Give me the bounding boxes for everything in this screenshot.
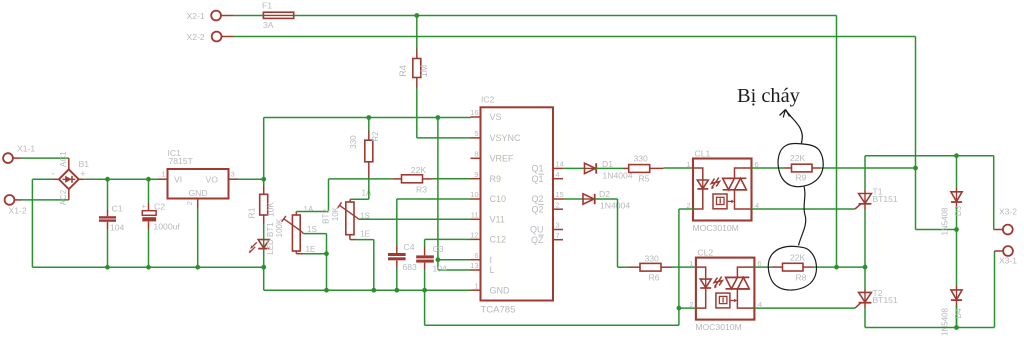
svg-text:1E: 1E: [360, 230, 370, 239]
svg-text:X2-1: X2-1: [187, 11, 205, 21]
junction CL2 pin2: [677, 306, 682, 311]
resistor R2 330: [349, 118, 380, 181]
wire R8 to line: [813, 266, 865, 268]
svg-text:Bị cháy: Bị cháy: [737, 85, 801, 107]
svg-text:330: 330: [634, 154, 649, 164]
junction C3 bottom bus: [422, 288, 427, 293]
diode D4 1N5408: [940, 230, 963, 337]
svg-text:7: 7: [556, 231, 560, 240]
svg-text:11: 11: [471, 211, 479, 220]
wire R3 to R9 pin9: [433, 178, 471, 180]
resistor R6 330: [628, 253, 672, 282]
svg-text:AC1: AC1: [59, 151, 68, 167]
junction R9 line: [913, 166, 918, 171]
diode D3 1N5408: [940, 156, 963, 236]
svg-text:+: +: [80, 169, 85, 179]
svg-text:D1: D1: [602, 159, 613, 169]
svg-text:8: 8: [474, 150, 478, 159]
wire IC1 GND down: [197, 209, 199, 268]
svg-text:AC2: AC2: [59, 189, 68, 205]
svg-text:C2: C2: [154, 201, 165, 211]
svg-text:CL2: CL2: [697, 247, 713, 257]
thyristor T1 BT151: [855, 187, 898, 210]
potentiometer BT2 10K: [321, 189, 372, 239]
svg-text:1N4004: 1N4004: [600, 201, 630, 211]
svg-text:BT151: BT151: [873, 194, 898, 204]
diode D1 1N4004: [585, 159, 633, 181]
capacitor C1 104: [99, 179, 125, 267]
wire pot1 wiper 1S: [301, 231, 326, 290]
svg-text:330: 330: [349, 135, 358, 149]
svg-text:MOC3010M: MOC3010M: [695, 322, 741, 332]
svg-text:15: 15: [556, 190, 564, 199]
connector X2-2: [187, 32, 234, 42]
svg-text:R8: R8: [796, 272, 807, 282]
svg-text:R2: R2: [371, 131, 380, 142]
wire X1-1 to B1: [21, 157, 69, 159]
svg-text:330: 330: [645, 253, 660, 263]
svg-text:VI: VI: [174, 174, 182, 184]
junction R2 top: [366, 115, 371, 120]
svg-text:X3-1: X3-1: [999, 256, 1017, 266]
wire ground drop to lower rail: [425, 290, 679, 325]
svg-text:10: 10: [470, 190, 478, 199]
svg-text:10K: 10K: [331, 206, 340, 221]
svg-text:1: 1: [161, 170, 165, 179]
svg-text:5: 5: [474, 129, 478, 138]
wire pot2 1E: [350, 235, 374, 291]
wire R4 to VSYNC pin5: [417, 88, 471, 138]
wire R9 to line node: [820, 167, 916, 169]
capacitor C2 1000uf: [142, 179, 181, 267]
svg-text:1A: 1A: [304, 205, 314, 214]
svg-text:C1: C1: [112, 203, 123, 213]
wire CL2 pin6 to R8: [754, 266, 772, 268]
svg-text:3: 3: [556, 221, 560, 230]
svg-text:MOC3010M: MOC3010M: [693, 223, 739, 233]
svg-text:X2-2: X2-2: [187, 32, 205, 42]
svg-text:BT2: BT2: [321, 209, 330, 224]
svg-text:C12: C12: [490, 235, 507, 245]
connector X3-2: [994, 156, 1018, 235]
svg-text:IC2: IC2: [481, 95, 495, 105]
svg-text:QZ: QZ: [531, 235, 544, 245]
capacitor C3 104: [416, 239, 447, 290]
annotation arrow squiggle: [780, 110, 803, 144]
svg-text:F1: F1: [262, 1, 272, 11]
wire T2 anode: [864, 267, 866, 289]
svg-text:16: 16: [470, 108, 478, 117]
fuse F1: [262, 1, 294, 30]
annotation text Bi chay: [737, 85, 801, 107]
svg-text:10K: 10K: [266, 202, 276, 217]
svg-text:Q1: Q1: [531, 164, 543, 174]
junction VO node: [261, 177, 266, 182]
wire CL1 pin6 to R9: [752, 167, 784, 169]
wire LED to bus: [263, 255, 265, 268]
junction LED bus: [261, 265, 266, 270]
svg-text:104: 104: [110, 222, 125, 232]
junction pot2 bottom bus: [371, 288, 376, 293]
junction pot1 1E/1S: [324, 251, 329, 256]
thyristor T2 BT151: [855, 288, 898, 308]
junction D3/D4 node: [954, 227, 959, 232]
junction X2-1/R4: [414, 13, 419, 18]
junction IC1 GND: [195, 265, 200, 270]
wire T2 cathode bottom rail: [865, 308, 995, 328]
svg-text:22K: 22K: [790, 153, 805, 163]
junction C2 top: [146, 177, 151, 182]
svg-text:VREF: VREF: [490, 154, 515, 164]
wire C3 top to C12 pin12: [425, 238, 471, 240]
svg-text:R3: R3: [416, 185, 427, 195]
bridge rectifier B1: [52, 151, 90, 206]
svg-text:TCA785: TCA785: [481, 304, 516, 315]
svg-text:R9: R9: [490, 174, 502, 184]
svg-text:1: 1: [686, 160, 690, 169]
svg-text:X1-1: X1-1: [17, 144, 35, 154]
wire X2-2 rail: [234, 37, 957, 230]
svg-text:-: -: [52, 168, 55, 178]
svg-text:C4: C4: [404, 242, 415, 252]
potentiometer BT1 100K: [282, 205, 317, 254]
wire IC1 VO output: [239, 178, 264, 180]
svg-text:GND: GND: [189, 188, 208, 198]
svg-text:3A: 3A: [263, 20, 274, 30]
wire Q2 pin15 out: [563, 198, 583, 200]
svg-text:VS: VS: [490, 112, 502, 122]
wire R6 to CL2 pin1: [672, 266, 696, 268]
junction C2 bottom: [146, 265, 151, 270]
svg-text:9: 9: [474, 170, 478, 179]
svg-text:V11: V11: [490, 215, 505, 225]
junction VS inhibit riser: [436, 115, 441, 120]
voltage regulator IC1 7815T: [158, 148, 239, 209]
svg-text:X1-2: X1-2: [9, 206, 27, 216]
resistor R5 330: [623, 154, 663, 184]
wire Q1 pin14 out: [563, 167, 584, 169]
capacitor C4 683: [388, 199, 417, 290]
wire pot2 wiper 1S to V11 pin11: [357, 218, 471, 220]
junction C1 bottom: [105, 265, 110, 270]
optocoupler CL2 MOC3010M: [689, 247, 762, 332]
wire R5 to CL1 pin1: [663, 167, 693, 169]
svg-text:1: 1: [474, 281, 478, 290]
wire T1 cathode to midpoint: [864, 210, 866, 267]
junction X2-1 drop on R8 row: [834, 265, 839, 270]
svg-text:LED BT1: LED BT1: [266, 222, 275, 255]
resistor R9 22K: [783, 153, 820, 183]
connector X2-1: [187, 11, 234, 21]
wire CL2 pin4 to T2 gate: [754, 307, 855, 309]
wire X2-1 branch to R4: [416, 16, 418, 49]
junction C1 top: [105, 177, 110, 182]
svg-text:B1: B1: [79, 159, 90, 169]
svg-text:14: 14: [556, 160, 564, 169]
wire pot1 1A riser: [296, 179, 328, 212]
svg-text:C3: C3: [433, 244, 444, 254]
svg-text:CL1: CL1: [695, 148, 711, 158]
svg-text:1M: 1M: [419, 65, 429, 78]
svg-text:X3-2: X3-2: [999, 207, 1017, 217]
svg-text:13: 13: [470, 261, 478, 270]
svg-text:3: 3: [231, 170, 235, 179]
wire B1 plus to IC1 VI: [84, 178, 157, 180]
wire D1 to R5: [596, 167, 623, 169]
svg-text:D3: D3: [954, 205, 963, 216]
wire CL1 pin2 riser: [679, 209, 693, 325]
wire C4 top to C10 pin10: [397, 198, 471, 200]
junction pot1 bottom bus: [324, 288, 329, 293]
wire CL1 pin4 to T1 gate: [752, 208, 856, 210]
svg-text:1N5408: 1N5408: [940, 207, 949, 236]
resistor R8 22K: [772, 252, 813, 282]
svg-text:683: 683: [403, 262, 418, 272]
LED BT1: [249, 218, 284, 255]
svg-text:R1: R1: [246, 207, 256, 218]
wire D2 down to R6: [595, 199, 628, 267]
wire CL2 pin2 stub: [679, 307, 696, 309]
junction thyristor midpoint: [863, 265, 868, 270]
svg-text:1E: 1E: [306, 245, 316, 254]
IC IC2 TCA785: [470, 95, 564, 316]
svg-text:2: 2: [556, 200, 560, 209]
svg-text:D2: D2: [599, 189, 610, 199]
svg-text:Q1: Q1: [531, 174, 543, 184]
svg-text:Q2: Q2: [531, 204, 543, 214]
wire pot2 1A to R2: [350, 180, 369, 199]
svg-text:22K: 22K: [411, 165, 427, 175]
wire VO riser to VS rail: [264, 118, 471, 180]
svg-text:1N5408: 1N5408: [940, 307, 949, 336]
junction D3 top: [954, 153, 959, 158]
svg-text:C10: C10: [490, 194, 507, 204]
svg-text:R9: R9: [796, 173, 807, 183]
svg-text:1S: 1S: [307, 225, 317, 234]
svg-text:22K: 22K: [790, 252, 805, 262]
svg-text:+: +: [142, 201, 147, 210]
svg-text:104: 104: [433, 264, 448, 274]
optocoupler CL1 MOC3010M: [686, 148, 759, 233]
svg-text:R4: R4: [398, 65, 408, 77]
svg-text:6: 6: [474, 251, 478, 260]
svg-text:R5: R5: [639, 173, 650, 183]
connector X1-2: [5, 195, 27, 216]
wire ground bus lower: [264, 267, 471, 290]
junction C4 bottom bus: [394, 288, 399, 293]
connector X1-1: [3, 144, 35, 163]
svg-text:VSYNC: VSYNC: [490, 133, 522, 143]
svg-text:R6: R6: [649, 273, 660, 283]
wire T1 anode rail: [865, 156, 994, 190]
svg-text:VO: VO: [206, 174, 219, 184]
svg-text:D4: D4: [954, 308, 963, 319]
svg-text:L: L: [490, 265, 495, 275]
wire X1-2 to B1: [21, 199, 69, 201]
svg-text:Q2: Q2: [531, 194, 543, 204]
wire X2-1 net top rail: [233, 15, 837, 17]
junction pin6 riser: [436, 257, 441, 262]
diode D2 1N4004: [583, 189, 630, 211]
svg-text:GND: GND: [490, 285, 511, 295]
connector X3-1: [995, 246, 1018, 327]
svg-text:4: 4: [556, 170, 560, 179]
svg-text:QU: QU: [530, 225, 544, 235]
svg-text:I: I: [490, 255, 493, 265]
svg-text:BT151: BT151: [873, 295, 898, 305]
resistor R3 22K: [392, 165, 433, 194]
resistor R4 1M: [398, 49, 429, 89]
wire pot1 1E: [296, 251, 326, 254]
svg-text:7815T: 7815T: [169, 156, 194, 166]
wire X2-1 right drop: [836, 16, 838, 268]
svg-text:1A: 1A: [362, 189, 372, 198]
annotation circle around R8: [768, 246, 816, 290]
wire VS to pin6 and pin13: [438, 118, 471, 271]
svg-text:12: 12: [470, 231, 478, 240]
wire B1 minus to ground bus: [32, 179, 263, 267]
svg-text:2: 2: [185, 201, 194, 205]
annotation squiggle between circles: [799, 187, 806, 246]
junction D4 bottom: [954, 325, 959, 330]
svg-text:1000uf: 1000uf: [154, 222, 181, 232]
wire pot1 1A to R3/R2 row: [329, 178, 393, 180]
resistor R1 10K: [246, 179, 275, 224]
annotation circle around R9: [778, 143, 823, 186]
